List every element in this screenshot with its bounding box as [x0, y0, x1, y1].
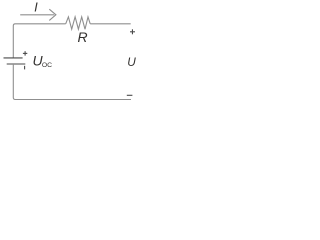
terminal - (bottom right): [127, 94, 133, 96]
resistor R1 zigzag: [66, 17, 91, 29]
terminal + (top right): [130, 29, 135, 34]
svg-text:OC: OC: [42, 62, 52, 69]
wire top-right (resistor to + terminal): [90, 23, 131, 25]
wire left lower (battery to bottom corner) and bottom wire: [13, 64, 131, 100]
svg-text:R: R: [78, 29, 88, 45]
battery + mark: [23, 51, 27, 55]
battery source plate - (bottom): [7, 63, 26, 65]
wire top-left (corner to resistor): [13, 24, 65, 58]
svg-text:U: U: [127, 55, 136, 69]
current arrow I: [20, 9, 56, 20]
svg-text:I: I: [34, 0, 38, 15]
battery - mark (vertical tick): [24, 66, 26, 70]
battery source plate + (long, top): [4, 57, 23, 59]
